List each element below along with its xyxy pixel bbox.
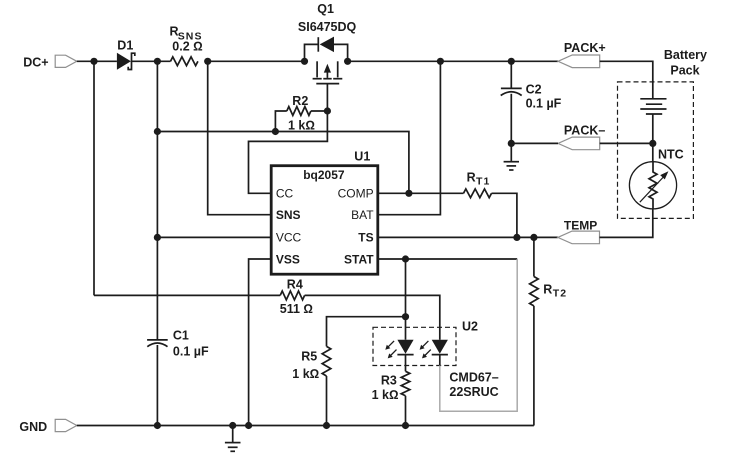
svg-text:T2: T2	[553, 288, 567, 300]
node STAT junction	[402, 255, 409, 262]
svg-text:D1: D1	[117, 38, 133, 52]
wire R4 to LED2 anode	[305, 295, 440, 339]
node COMP junction	[405, 190, 412, 197]
svg-text:PACK+: PACK+	[564, 41, 606, 55]
svg-text:CMD67–: CMD67–	[449, 371, 498, 385]
wire RT2 bottom down to ground rail corner	[533, 306, 535, 426]
transistor Q1 MOSFET body	[316, 61, 318, 77]
node R3 ground junction	[402, 422, 409, 429]
wire D1 cathode to RSNS	[132, 60, 171, 62]
node Q1 drain junction	[344, 58, 351, 65]
svg-text:bq2057: bq2057	[303, 168, 345, 182]
svg-text:R: R	[467, 171, 476, 185]
wire PACK- to battery negative	[600, 142, 653, 144]
svg-text:Battery: Battery	[664, 48, 707, 62]
wire COMP pin to RT1	[378, 192, 464, 194]
svg-text:VCC: VCC	[276, 231, 302, 245]
svg-text:TS: TS	[358, 231, 373, 245]
resistor R5 1k	[327, 317, 406, 347]
connector PACK+	[558, 55, 600, 68]
node RT1 junction on TS line	[513, 234, 520, 241]
svg-text:VSS: VSS	[276, 252, 300, 266]
svg-text:SI6475DQ: SI6475DQ	[298, 20, 357, 34]
svg-text:0.1 µF: 0.1 µF	[526, 97, 562, 111]
wire ground rail	[77, 425, 534, 427]
node y131 left junction	[154, 128, 161, 135]
op-amp U1 bq2057 box	[271, 166, 378, 275]
svg-text:1 kΩ: 1 kΩ	[292, 367, 319, 381]
svg-text:STAT: STAT	[344, 252, 374, 266]
wire gray loop STAT to LED2 cathode (U2 outline)	[440, 259, 517, 411]
resistor R3 1k	[401, 371, 410, 395]
svg-text:Pack: Pack	[670, 64, 699, 78]
wire BAT pin right then up to top rail	[378, 61, 441, 214]
svg-text:BAT: BAT	[351, 208, 374, 222]
resistor RSNS 0.2 ohm	[171, 57, 198, 66]
resistor RT1	[464, 189, 492, 198]
wire VCC pin to x157 vertical	[157, 236, 271, 238]
svg-text:T1: T1	[476, 176, 490, 188]
wire PACK- junction to connector	[511, 142, 558, 144]
U2 dashed LED box	[373, 327, 456, 365]
connector TEMP	[558, 231, 600, 244]
wire vertical x=157 from C1 bottom to ground rail	[156, 345, 158, 426]
svg-text:COMP: COMP	[338, 187, 374, 201]
node RSNS right junction	[204, 58, 211, 65]
svg-text:NTC: NTC	[658, 147, 684, 161]
svg-text:C1: C1	[173, 329, 189, 343]
wire Q1 gate lead down to R2	[326, 84, 328, 111]
node R2 right / gate junction	[324, 107, 331, 114]
svg-text:U1: U1	[354, 149, 370, 163]
svg-text:Q1: Q1	[317, 2, 334, 16]
svg-text:22SRUC: 22SRUC	[449, 385, 498, 399]
svg-text:0.2 Ω: 0.2 Ω	[172, 39, 202, 53]
transistor Q1 body diode loop	[305, 44, 319, 61]
ground symbol on ground rail	[232, 426, 234, 443]
node BAT junction on top rail	[437, 58, 444, 65]
wire net y=131.5 from x157 vertical to COMP drop	[157, 132, 409, 194]
svg-text:1 kΩ: 1 kΩ	[372, 388, 399, 402]
svg-text:U2: U2	[462, 319, 478, 333]
node C2 top junction	[508, 58, 515, 65]
svg-text:511 Ω: 511 Ω	[280, 302, 313, 316]
wire STAT pin to gray loop	[378, 258, 517, 260]
svg-text:R5: R5	[301, 350, 317, 364]
svg-text:1 kΩ: 1 kΩ	[288, 118, 315, 132]
svg-text:TEMP: TEMP	[564, 218, 597, 232]
LED D2 (left LED of U2)	[397, 340, 413, 354]
svg-text:PACK–: PACK–	[564, 123, 605, 137]
capacitor C2 0.1uF	[510, 61, 512, 88]
node VCC junction on x157	[154, 234, 161, 241]
node R5 ground junction	[323, 422, 330, 429]
wire VSS pin left then down to ground rail	[249, 259, 272, 426]
resistor RT2	[533, 237, 535, 276]
svg-text:GND: GND	[19, 420, 47, 434]
capacitor C1 0.1uF	[147, 339, 168, 341]
battery B1	[640, 98, 666, 100]
node LED1 anode / R5 junction	[402, 313, 409, 320]
node VSS ground junction	[245, 422, 252, 429]
LED D3 (right LED of U2)	[432, 340, 448, 354]
wire vertical from DC+ junction down to R4 line	[93, 61, 95, 295]
svg-text:C2: C2	[526, 83, 542, 97]
resistor R4 511 ohm	[94, 294, 280, 296]
node R2 left junction	[272, 128, 279, 135]
wire CC net: gate junction down, left, down to CC pin	[249, 111, 328, 193]
wire LED2 cathode down	[439, 355, 441, 366]
svg-text:R3: R3	[381, 373, 397, 387]
node battery negative / PACK- junction	[649, 140, 656, 147]
wire LED1 cathode to R3	[405, 355, 407, 372]
node D1 cathode junction	[154, 58, 161, 65]
svg-text:R4: R4	[287, 278, 303, 292]
wire vertical x=207.7 down then right to SNS pin	[208, 61, 272, 214]
wire RT1 right then down to TS line	[492, 193, 517, 237]
wire PACK+ to battery	[600, 61, 653, 99]
node Q1 source junction	[301, 58, 308, 65]
wire RSNS to Q1 source	[208, 60, 305, 62]
svg-text:R: R	[543, 283, 552, 297]
wire TS pin to TEMP connector	[378, 236, 558, 238]
svg-text:DC+: DC+	[23, 55, 48, 69]
ground symbol under PACK- junction	[510, 143, 512, 161]
node C1 ground junction	[154, 422, 161, 429]
wire DC+ to D1 anode	[77, 60, 117, 62]
wire STAT junction down to LED1 anode	[405, 259, 407, 340]
node RT2 junction on TS line	[530, 234, 537, 241]
connector DC+	[55, 55, 77, 67]
wire Q1 drain to PACK+	[348, 60, 558, 62]
diode D1 (Schottky)	[117, 53, 131, 70]
battery pack dashed box	[618, 82, 694, 219]
node C2 bottom / PACK- junction	[508, 140, 515, 147]
connector GND	[55, 419, 77, 431]
wire vertical x=157 from top rail down to C1 top plate	[156, 61, 158, 340]
resistor R2 1k	[287, 107, 311, 116]
svg-text:CC: CC	[276, 187, 294, 201]
node ground symbol junction	[229, 422, 236, 429]
connector PACK-	[558, 137, 600, 150]
svg-text:0.1 µF: 0.1 µF	[173, 345, 209, 359]
wire TEMP to NTC	[600, 209, 653, 238]
svg-text:SNS: SNS	[276, 208, 301, 222]
node DC+ rail junction	[90, 58, 97, 65]
svg-text:R2: R2	[292, 94, 308, 108]
